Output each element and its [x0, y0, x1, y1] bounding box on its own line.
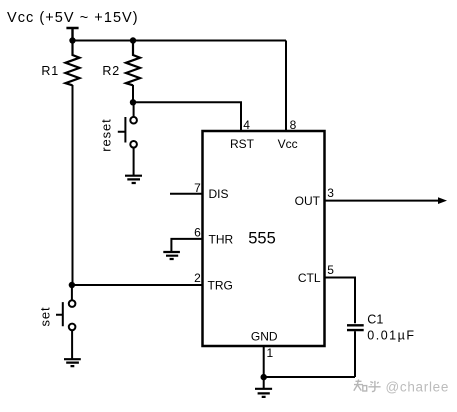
svg-text:8: 8: [290, 118, 297, 132]
svg-text:555: 555: [248, 230, 276, 248]
svg-text:@charlee: @charlee: [386, 380, 450, 395]
IC U1 555 body: [203, 131, 325, 346]
wire DIS stub pin 7: [170, 193, 203, 195]
junction node R2 / reset: [130, 99, 136, 105]
wire Vcc rail: [73, 40, 287, 42]
svg-text:OUT: OUT: [295, 194, 321, 208]
wire node to set switch: [71, 285, 73, 300]
svg-text:7: 7: [194, 181, 201, 195]
junction node at R1 top: [69, 37, 75, 43]
wire set switch to ground: [71, 330, 73, 359]
svg-text:TRG: TRG: [208, 278, 233, 292]
wire reset node to RST pin 4: [133, 102, 241, 131]
svg-text:RST: RST: [230, 137, 255, 151]
resistor R2: [126, 41, 140, 86]
svg-text:reset: reset: [99, 118, 114, 151]
svg-text:THR: THR: [209, 232, 234, 246]
wire R2 bottom to reset node: [132, 85, 134, 102]
svg-text:Vcc (+5V ~ +15V): Vcc (+5V ~ +15V): [7, 10, 139, 26]
svg-text:C1: C1: [367, 312, 383, 326]
wire OUT pin 3: [325, 200, 440, 202]
arrowhead OUT: [438, 197, 447, 204]
watermark zhihu logo glyphs: [354, 379, 381, 391]
wire node to reset switch: [133, 102, 135, 117]
wire THR pin 6 to ground: [171, 239, 202, 252]
svg-text:0.01µF: 0.01µF: [367, 329, 415, 343]
svg-text:2: 2: [194, 271, 201, 285]
ground reset: [125, 176, 142, 183]
svg-text:DIS: DIS: [209, 187, 229, 201]
capacitor C1: [347, 325, 364, 330]
pushbutton reset: [118, 117, 137, 148]
ground GND pin: [255, 389, 272, 397]
wire reset switch to ground: [133, 148, 135, 176]
wire Vcc rail to pin 8: [285, 41, 287, 132]
junction node GND: [261, 374, 267, 380]
wire C1 to ground rail: [354, 331, 356, 377]
wire R1 bottom to TRG node: [72, 85, 74, 285]
svg-text:set: set: [38, 306, 53, 326]
pushbutton set: [56, 300, 75, 330]
svg-text:3: 3: [327, 186, 334, 200]
resistor R1: [66, 41, 80, 86]
svg-text:Vcc: Vcc: [278, 137, 298, 151]
junction node at R2 top: [130, 37, 136, 43]
junction node TRG / set: [69, 282, 75, 288]
svg-text:CTL: CTL: [298, 271, 321, 285]
svg-text:R1: R1: [41, 64, 59, 78]
wire bottom ground rail: [264, 376, 355, 378]
svg-text:1: 1: [267, 346, 274, 360]
svg-text:4: 4: [243, 118, 250, 132]
svg-text:5: 5: [327, 263, 334, 277]
Vcc power symbol: [66, 28, 78, 41]
ground THR: [163, 252, 180, 259]
wire CTL pin 5 to C1: [325, 278, 356, 324]
svg-text:6: 6: [194, 226, 201, 240]
wire TRG node to pin 2: [72, 284, 203, 286]
svg-text:R2: R2: [102, 64, 120, 78]
svg-text:GND: GND: [251, 330, 278, 344]
wire GND pin 1 down: [263, 346, 265, 389]
ground set: [64, 359, 81, 366]
